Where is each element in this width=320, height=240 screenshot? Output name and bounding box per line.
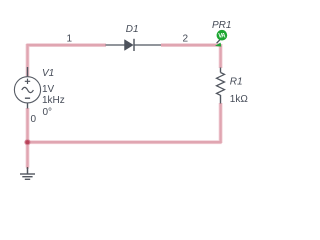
ground vertical stub <box>27 168 29 174</box>
junction node dot halo <box>24 139 30 145</box>
svg-text:2: 2 <box>183 34 189 45</box>
V1 sine symbol <box>22 87 34 92</box>
wire: bottom horizontal <box>27 141 222 143</box>
ground bar 3 <box>25 178 30 180</box>
voltage source V1 lead stubs <box>27 67 29 109</box>
wire halo underlay <box>26 44 221 168</box>
wire: top horizontal left segment (corner to diode anode lead) <box>26 44 106 46</box>
ground bar 2 <box>22 176 32 178</box>
resistor R1 zigzag <box>217 73 225 96</box>
svg-text:1kΩ: 1kΩ <box>230 94 249 105</box>
diode D1 triangle <box>125 40 134 51</box>
svg-text:VA: VA <box>218 34 226 40</box>
svg-text:V1: V1 <box>42 68 54 79</box>
svg-text:1kHz: 1kHz <box>42 95 65 106</box>
wire: left vertical from V1 bottom to junction <box>26 108 28 142</box>
probe PR1 arrowhead <box>215 43 221 47</box>
diode D1 cathode bar <box>133 39 135 51</box>
wire: right vertical lower (R1 to bottom corner) <box>219 103 221 143</box>
junction node dot <box>25 140 29 144</box>
svg-text:PR1: PR1 <box>212 20 231 31</box>
svg-text:0: 0 <box>31 114 37 125</box>
V1 minus sign <box>25 97 30 99</box>
svg-text:1: 1 <box>67 34 73 45</box>
wire: right vertical upper (corner to R1) <box>219 44 221 68</box>
svg-text:1V: 1V <box>42 84 55 95</box>
diode D1 anode lead <box>106 44 125 46</box>
probe PR1 green circle <box>217 30 228 41</box>
voltage source V1 circle <box>14 77 40 103</box>
svg-text:0°: 0° <box>43 107 53 118</box>
resistor R1 lead stubs <box>220 68 222 104</box>
wire: junction to ground pin <box>26 142 28 167</box>
V1 plus sign <box>25 79 30 84</box>
ground bar 1 <box>20 173 35 175</box>
ground pin tick <box>27 167 29 169</box>
svg-text:R1: R1 <box>230 77 243 88</box>
diode D1 cathode lead <box>134 44 161 46</box>
wire: top horizontal right segment (diode cathode lead to right corner) <box>161 44 221 46</box>
probe PR1 arrow shaft <box>217 39 221 43</box>
svg-text:D1: D1 <box>126 24 139 35</box>
wire: top-left vertical from V1 to corner <box>26 44 28 76</box>
